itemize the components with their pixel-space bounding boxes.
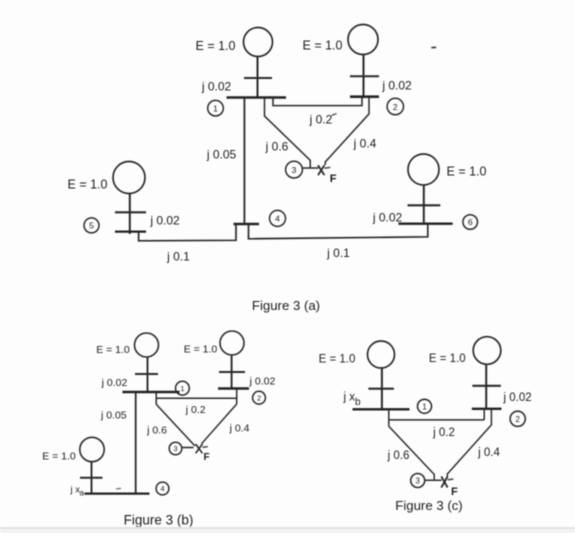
wire j0.1 bus4 to bus6 [249,224,428,239]
svg-text:E = 1.0: E = 1.0 [196,39,236,53]
svg-text:j 0.6: j 0.6 [146,425,167,437]
transformer TbL tick [135,373,158,375]
wire j0.2 bus1 to bus2 (U shape) [273,98,362,106]
svg-text:2: 2 [516,415,520,424]
wire G5 to transformer T5 [129,194,131,235]
bus 1 bar [227,96,287,99]
wire j0.2 (c) horizontal [389,419,484,421]
generator Ga circle [80,437,104,461]
fault right dash (b) [203,446,208,449]
svg-text:j 0.02: j 0.02 [372,211,403,225]
svg-text:j 0.02: j 0.02 [101,377,128,389]
generator G6 circle [408,154,439,185]
wire node3 to fault [303,167,319,169]
svg-text:j 0.2: j 0.2 [432,427,455,439]
generator G1 circle [244,28,273,57]
transformer Ta tick [80,477,103,479]
svg-text:j 0.1: j 0.1 [166,249,190,263]
svg-text:F: F [451,486,458,498]
bus 2 bar [350,95,379,98]
svg-text:Figure 3 (a): Figure 3 (a) [252,298,320,313]
generator G2 circle [348,25,378,55]
wire j0.2 (b) U shape [155,392,157,404]
wire j0.4 bus2 to fault node [325,97,369,165]
svg-text:j 0.4: j 0.4 [353,137,377,151]
bottom scan band line [0,527,575,529]
transformer T6 tick [408,204,441,206]
svg-text:j 0.05: j 0.05 [206,148,237,162]
node 1b circle [176,381,190,395]
bus 6 bar [398,222,452,224]
svg-text:E = 1.0: E = 1.0 [96,344,130,356]
node 1c circle [418,399,432,413]
svg-text:Figure 3 (b): Figure 3 (b) [124,513,194,528]
svg-text:E = 1.0: E = 1.0 [184,344,218,356]
node 6 circle [463,215,478,230]
bus 2b bar [218,387,249,389]
small tick on bus 4b [116,487,121,490]
svg-text:j 0.2: j 0.2 [185,404,206,416]
svg-text:F: F [330,173,337,185]
bus 1b bar [122,391,179,393]
fault X mark (b) [196,444,203,453]
node 4b circle [156,482,169,495]
fault right dash (c) [448,478,454,481]
wire G2 to transformer T2 [363,55,365,97]
node 4 circle [270,210,286,226]
node 3b circle [169,442,182,455]
wire j0.2 (c) right stub [483,409,485,420]
svg-text:E = 1.0: E = 1.0 [68,178,108,192]
generator GbL circle [135,333,159,357]
svg-text:1: 1 [180,384,184,393]
svg-text:j 0.6: j 0.6 [387,450,410,462]
svg-text:4: 4 [160,484,164,493]
svg-text:j 0.4: j 0.4 [477,447,500,459]
bottom scan band [0,529,575,533]
svg-text:E = 1.0: E = 1.0 [429,353,466,365]
transformer T2 tick [350,75,379,77]
wire G6 to transformer T6 [423,185,425,224]
svg-text:1: 1 [213,103,218,113]
transformer T1 tick [244,77,272,79]
svg-text:j 0.02: j 0.02 [503,392,532,404]
node 2b circle [253,391,266,404]
svg-text:j 0.05: j 0.05 [100,409,127,421]
svg-text:2: 2 [393,102,398,112]
bus 2c bar [472,408,502,410]
svg-text:j 0.2: j 0.2 [309,112,333,126]
wire j0.6 (b) diagonal [156,404,195,446]
fault X mark [318,165,324,175]
transformer TbR tick [219,371,245,373]
svg-text:4: 4 [275,214,280,224]
transformer TcR tick [472,385,501,387]
svg-text:E = 1.0: E = 1.0 [42,451,76,463]
svg-text:j 0.02: j 0.02 [149,214,180,228]
svg-text:j 0.02: j 0.02 [381,79,412,93]
node 5 circle [84,218,99,233]
svg-text:j 0.6: j 0.6 [265,140,289,154]
svg-text:E = 1.0: E = 1.0 [319,354,356,366]
svg-text:5: 5 [89,221,94,231]
svg-text:Figure 3 (c): Figure 3 (c) [395,498,462,513]
svg-text:1: 1 [422,402,426,411]
wire j0.05 bus1 to bus4 [243,98,245,224]
wire j0.6 (c) diagonal [389,426,434,480]
node 3 circle [286,161,303,178]
wire GbR to transformer [231,355,233,389]
generator GbR circle [220,331,244,355]
wire GcL to transformer [381,369,383,410]
stray scan dash [431,46,436,48]
generator G5 circle [113,162,145,194]
node 1 circle [208,100,224,116]
svg-text:j 0.02: j 0.02 [201,80,232,94]
bus 4b bar [84,493,149,495]
transformer T5 tick [115,211,146,213]
bus 4 bar [234,223,260,226]
wire j0.4 (b) diagonal [202,404,237,444]
small mark after j0.2 [332,114,337,116]
svg-text:3: 3 [173,444,177,453]
wire node3b to fault [182,447,194,449]
svg-text:F: F [204,452,210,463]
svg-text:E = 1.0: E = 1.0 [447,165,487,179]
svg-text:j 0.1: j 0.1 [326,246,350,260]
fault right dash [325,166,331,169]
wire j0.05 (b) [135,392,137,494]
wire j0.2 (c) left stub [388,409,390,426]
generator GcL circle [368,341,395,368]
bus 1c bar [353,408,410,410]
svg-text:2: 2 [257,393,261,402]
svg-text:E = 1.0: E = 1.0 [303,39,343,53]
wire GcR to transformer [485,365,487,409]
generator GcR circle [473,337,501,365]
svg-text:3: 3 [292,165,297,175]
node 2c circle [510,411,525,426]
svg-text:j 0.02: j 0.02 [249,376,276,388]
svg-text:3: 3 [416,477,420,486]
node 3c circle [411,474,425,488]
wire j0.2 (b) horizontal [156,389,237,399]
wire G1 to transformer T1 [257,57,259,99]
node 2 circle [387,98,403,114]
svg-text:j 0.4: j 0.4 [229,423,250,435]
wire j0.4 (c) diagonal [447,409,491,477]
wire j0.2 (b) right stub [236,398,238,404]
wire j0.1 bus5 to bus4 [139,224,236,241]
fault X mark (c) [441,477,447,488]
wire j0.6 bus1 to fault node [265,98,311,168]
wire Ga to transformer [91,462,93,494]
bus 5 bar [115,231,146,233]
transformer TcL tick [368,388,394,390]
svg-text:6: 6 [468,217,473,227]
wire node3c to fault [425,479,442,481]
wire GbL to transformer [147,357,149,392]
